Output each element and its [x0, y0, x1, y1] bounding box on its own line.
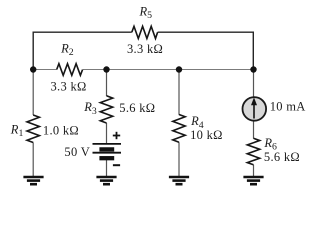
current source arrow: [253, 104, 255, 119]
wire R2 to node D: [83, 69, 254, 71]
ground under R1: [23, 177, 43, 184]
ground under R4: [169, 177, 189, 184]
node D junction dot: [250, 66, 256, 72]
wire left rail upper (node A to R1): [32, 70, 34, 116]
svg-text:50 V: 50 V: [64, 145, 90, 159]
resistor R1 zigzag: [27, 115, 39, 143]
svg-text:10 mA: 10 mA: [270, 100, 306, 114]
node C junction dot: [176, 66, 182, 72]
wire node D to current source: [253, 70, 255, 98]
svg-text:5.6 kΩ: 5.6 kΩ: [119, 101, 155, 115]
wire left rail lower (R1 to ground): [32, 143, 34, 177]
wire node B to R3: [106, 70, 108, 97]
wire node A to R2: [33, 69, 57, 71]
resistor R3 zigzag: [100, 96, 112, 123]
wire battery to ground: [106, 159, 108, 177]
svg-text:R2: R2: [60, 41, 74, 58]
wire left riser and top rail to R5: [33, 32, 132, 69]
resistor R2 zigzag: [57, 64, 83, 76]
wire R6 to ground: [253, 165, 255, 176]
resistor R5 zigzag: [132, 26, 158, 38]
battery plus sign: [113, 132, 120, 139]
node B junction dot: [103, 66, 109, 72]
wire second row horizontal: [33, 69, 254, 71]
battery V1 50 V plates: [93, 144, 122, 158]
svg-text:1.0 kΩ: 1.0 kΩ: [43, 124, 79, 138]
svg-text:10 kΩ: 10 kΩ: [190, 128, 223, 142]
svg-text:R3: R3: [83, 100, 97, 117]
svg-text:R5: R5: [139, 5, 153, 22]
battery minus sign: [113, 164, 120, 166]
svg-text:R1: R1: [10, 123, 24, 140]
wire node C to R4: [178, 70, 180, 115]
wire R4 to ground: [178, 142, 180, 176]
wire branch verticals: [33, 70, 253, 177]
wire top loop: left riser, top rail, right riser: [33, 32, 253, 69]
wire current source to R6: [253, 121, 255, 139]
wire R3 to battery: [106, 123, 108, 144]
svg-text:5.6 kΩ: 5.6 kΩ: [264, 150, 300, 164]
current source I1 circle: [243, 97, 267, 121]
svg-text:3.3 kΩ: 3.3 kΩ: [51, 80, 87, 94]
node A junction dot: [30, 66, 36, 72]
resistor R4 zigzag: [173, 115, 185, 143]
resistor R6 zigzag: [247, 138, 259, 165]
wire top rail from R5 and right riser: [158, 32, 254, 69]
svg-text:3.3 kΩ: 3.3 kΩ: [127, 42, 163, 56]
ground under battery: [96, 177, 116, 184]
ground under R6: [243, 177, 263, 184]
